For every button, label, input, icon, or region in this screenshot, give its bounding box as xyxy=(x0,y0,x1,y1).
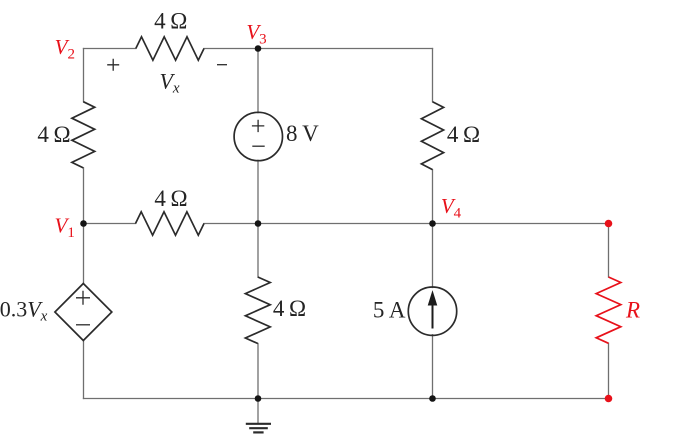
svg-text:5 A: 5 A xyxy=(373,297,406,322)
svg-text:0.3Vx: 0.3Vx xyxy=(0,297,48,325)
svg-text:8 V: 8 V xyxy=(286,121,319,146)
svg-text:4 Ω: 4 Ω xyxy=(37,122,70,147)
svg-text:4 Ω: 4 Ω xyxy=(447,122,480,147)
svg-text:4 Ω: 4 Ω xyxy=(273,296,306,321)
svg-text:4 Ω: 4 Ω xyxy=(154,186,187,211)
svg-text:R: R xyxy=(625,298,640,323)
svg-text:4 Ω: 4 Ω xyxy=(154,8,187,33)
